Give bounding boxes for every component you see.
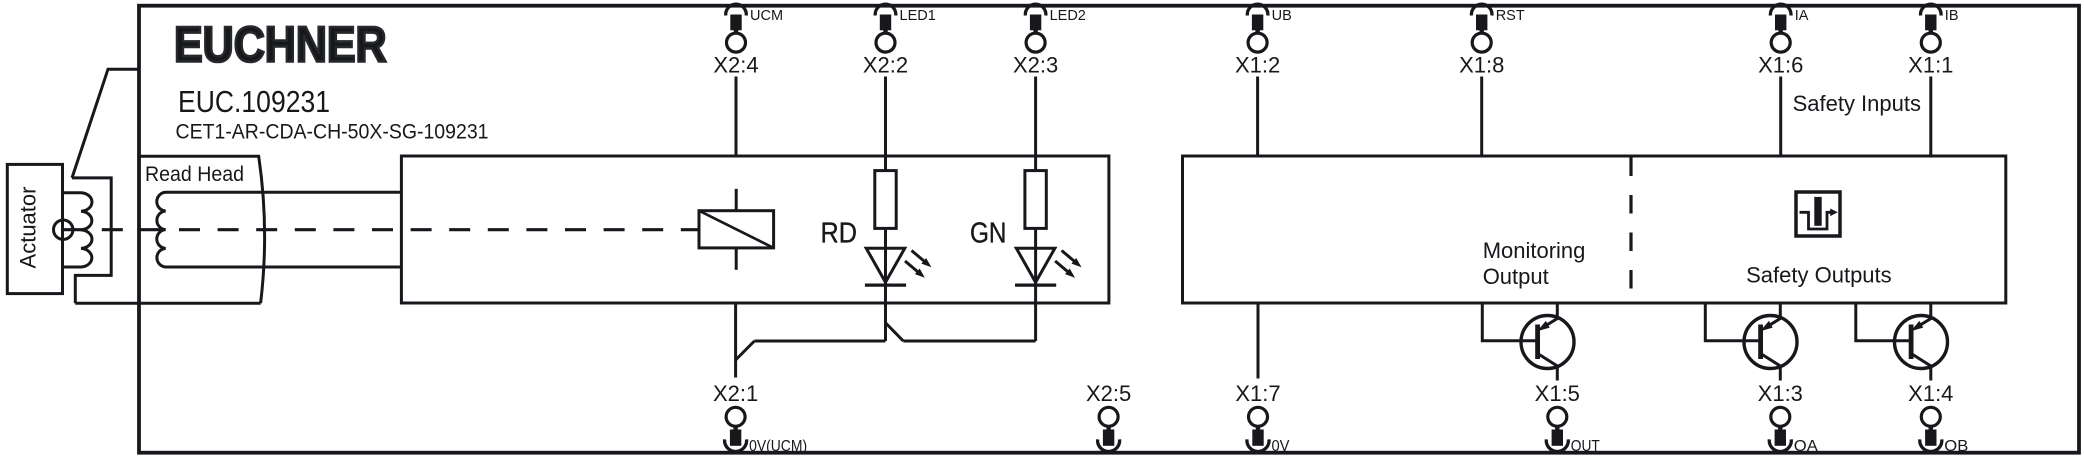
wire: bus left segment: [754, 340, 885, 343]
resistor R2: [1025, 156, 1046, 248]
connector pin X2:2 (LED1): [863, 4, 936, 156]
svg-text:X1:7: X1:7: [1235, 381, 1280, 406]
connector pin X1:6 (IA): [1758, 4, 1809, 156]
svg-text:CET1-AR-CDA-CH-50X-SG-109231: CET1-AR-CDA-CH-50X-SG-109231: [176, 120, 489, 144]
svg-text:RST: RST: [1496, 8, 1525, 24]
wire: jog diagonal at RD drop: [886, 323, 904, 341]
svg-text:Read Head: Read Head: [145, 162, 244, 186]
svg-text:UCM: UCM: [750, 8, 783, 24]
svg-text:X1:1: X1:1: [1908, 53, 1953, 78]
transponder coupling symbol K1: [699, 189, 774, 270]
wire: X1:7 riser: [1257, 303, 1260, 379]
svg-text:X1:2: X1:2: [1235, 53, 1280, 78]
LED D1 (RD): [865, 248, 932, 303]
svg-text:EUC.109231: EUC.109231: [178, 84, 330, 119]
svg-text:LED2: LED2: [1050, 8, 1086, 24]
connector pin X1:5 (OUT): [1535, 381, 1600, 455]
svg-text:GN: GN: [970, 218, 1007, 250]
svg-text:IA: IA: [1795, 8, 1809, 24]
connector pin X1:1 (IB): [1908, 4, 1958, 156]
read head box: [139, 156, 265, 303]
svg-text:X1:3: X1:3: [1758, 381, 1803, 406]
read head bottom edge / actuator lower link: [75, 302, 260, 305]
wire: GN LED drop: [1034, 303, 1037, 341]
svg-text:OA: OA: [1794, 438, 1818, 455]
wire: jog diagonal at X2:1: [736, 341, 755, 360]
svg-text:X2:2: X2:2: [863, 53, 908, 78]
svg-text:EUCHNER: EUCHNER: [174, 16, 387, 72]
svg-text:0V: 0V: [1272, 438, 1290, 455]
svg-text:Output: Output: [1483, 264, 1549, 289]
svg-text:Safety Inputs: Safety Inputs: [1793, 91, 1921, 116]
svg-text:Monitoring: Monitoring: [1483, 238, 1586, 263]
actuator link (diagonal to housing): [72, 69, 139, 178]
pulsed output icon: [1796, 192, 1840, 236]
transistor Q1: [1482, 303, 1574, 381]
connector pin X1:8 (RST): [1459, 4, 1525, 156]
left function box (read head electronics): [401, 156, 1109, 303]
svg-text:LED1: LED1: [900, 8, 936, 24]
connector pin X2:4 (UCM): [713, 4, 783, 156]
svg-text:X2:1: X2:1: [713, 381, 758, 406]
connector pin X1:2 (UB): [1235, 4, 1292, 156]
connector pin X2:3 (LED2): [1013, 4, 1086, 156]
transistor Q2: [1705, 303, 1797, 381]
wire: X2:1 riser: [734, 303, 737, 378]
connector pin X1:7 (0V): [1235, 381, 1289, 455]
resistor R1: [875, 156, 896, 248]
LED D2 (GN): [1015, 248, 1082, 303]
svg-text:Actuator: Actuator: [16, 187, 41, 269]
svg-text:Safety Outputs: Safety Outputs: [1746, 263, 1892, 288]
svg-text:0V(UCM): 0V(UCM): [749, 438, 807, 455]
right function box (evaluation electronics): [1183, 156, 2006, 303]
wire: RD LED drop: [884, 303, 887, 341]
transistor Q3: [1856, 303, 1948, 381]
actuator head bracket: [72, 178, 111, 303]
svg-text:X2:3: X2:3: [1013, 53, 1058, 78]
svg-text:OUT: OUT: [1571, 438, 1600, 455]
connector pin X1:3 (OA): [1758, 381, 1818, 455]
connector pin X2:1 (0V(UCM)): [713, 381, 807, 455]
connector pin X1:4 (OB): [1908, 381, 1968, 455]
svg-text:OB: OB: [1944, 438, 1968, 455]
dashed centerline (actuation axis): [63, 228, 699, 231]
svg-text:UB: UB: [1272, 8, 1292, 24]
read head coil (inductor): [157, 192, 402, 267]
svg-text:X1:8: X1:8: [1459, 53, 1504, 78]
wire: bus right segment: [903, 340, 1035, 343]
alignment target circle on actuator: [54, 220, 73, 239]
svg-text:X1:6: X1:6: [1758, 53, 1803, 78]
svg-text:IB: IB: [1945, 8, 1959, 24]
actuator coil (inductor): [63, 193, 92, 267]
dashed divider: [1629, 158, 1632, 302]
svg-text:X2:5: X2:5: [1086, 381, 1131, 406]
svg-text:RD: RD: [821, 218, 858, 250]
svg-text:X1:5: X1:5: [1535, 381, 1580, 406]
connector pin X2:5: [1086, 381, 1131, 452]
actuator box: [7, 164, 62, 293]
svg-text:X1:4: X1:4: [1908, 381, 1953, 406]
svg-text:X2:4: X2:4: [713, 53, 758, 78]
